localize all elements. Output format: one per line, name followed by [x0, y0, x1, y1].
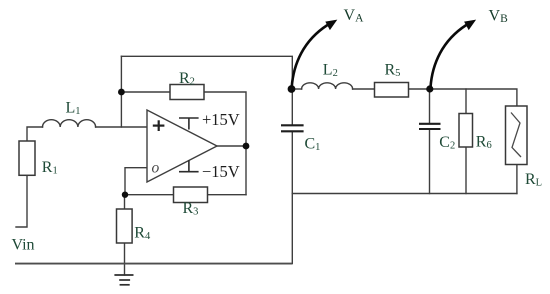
- svg-text:o: o: [152, 159, 160, 176]
- svg-text:−15V: −15V: [202, 162, 240, 181]
- svg-text:Vin: Vin: [12, 237, 35, 254]
- svg-text:+15V: +15V: [202, 110, 240, 129]
